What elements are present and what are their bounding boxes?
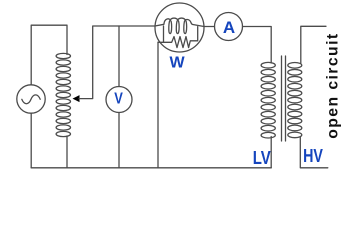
variac coil T1 bbox=[56, 53, 70, 136]
transformer core bbox=[281, 56, 283, 141]
wire ammeter to LV top bbox=[243, 27, 272, 64]
svg-text:A: A bbox=[223, 18, 235, 37]
HV winding bbox=[288, 63, 302, 138]
wattmeter voltage branch bbox=[163, 26, 165, 42]
wire variac bottom to rail bbox=[66, 136, 68, 168]
svg-text:W: W bbox=[169, 55, 185, 72]
ammeter A bbox=[215, 13, 243, 41]
wire tap to top rail bbox=[79, 26, 155, 99]
svg-text:LV: LV bbox=[253, 148, 271, 168]
wire wattmeter voltage terminal to rail bbox=[157, 42, 159, 168]
voltmeter V bbox=[106, 87, 132, 113]
ac source G1 bbox=[17, 85, 45, 113]
wire voltmeter bottom to rail bbox=[118, 113, 120, 168]
wire LV bottom to rail bbox=[270, 137, 272, 168]
wattmeter W circle bbox=[155, 3, 204, 52]
svg-text:V: V bbox=[114, 91, 123, 108]
ac source sine symbol bbox=[22, 95, 40, 104]
bottom rail bbox=[31, 167, 271, 169]
svg-text:open circuit: open circuit bbox=[325, 32, 342, 138]
wire source top to variac top bbox=[31, 25, 67, 85]
svg-text:HV: HV bbox=[303, 145, 323, 166]
wire HV bottom open lead bbox=[300, 137, 328, 168]
wire wattmeter to ammeter bbox=[204, 26, 215, 28]
wattmeter current coil bbox=[155, 18, 204, 33]
LV winding bbox=[261, 62, 275, 138]
wire HV top open lead bbox=[301, 26, 326, 63]
variac tap arrow bbox=[73, 95, 80, 102]
wire source bottom to rail bbox=[30, 113, 32, 168]
wire voltmeter branch top bbox=[118, 26, 120, 87]
